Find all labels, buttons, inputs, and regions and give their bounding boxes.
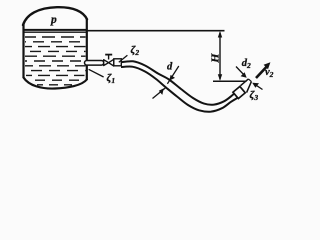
valve stem bbox=[108, 55, 110, 60]
svg-text:d: d bbox=[167, 61, 173, 72]
v2 arrow bbox=[256, 66, 267, 78]
nozzle collar bbox=[233, 86, 245, 98]
zeta1 leader bbox=[89, 69, 104, 77]
valve bowtie left bbox=[104, 60, 109, 66]
d2 lower-right arrow bbox=[254, 84, 263, 90]
water surface bbox=[25, 29, 87, 31]
nozzle converging tip bbox=[241, 79, 249, 86]
pipe entrance capsule bbox=[85, 61, 104, 66]
H top arrowhead bbox=[218, 31, 222, 38]
valve bowtie right bbox=[109, 59, 114, 66]
valve handle T-bar bbox=[105, 54, 112, 56]
water shading dashes bbox=[25, 37, 86, 85]
svg-text:H: H bbox=[211, 52, 222, 64]
datum line from surface bbox=[87, 30, 225, 32]
tank dome bbox=[23, 7, 87, 25]
d upper arrow bbox=[167, 66, 178, 84]
d2 upper-left arrow bbox=[236, 67, 245, 77]
zeta2 leader bbox=[119, 55, 128, 62]
d lower arrow bbox=[153, 87, 167, 98]
tank right wall bbox=[86, 19, 88, 80]
tank bottom bbox=[24, 78, 87, 89]
hose bottom edge bbox=[121, 66, 238, 111]
H dimension line bbox=[219, 33, 221, 80]
hose top edge bbox=[121, 61, 237, 105]
tank left wall bbox=[22, 24, 24, 78]
after-valve nipple bbox=[114, 59, 122, 66]
H bottom arrowhead bbox=[218, 74, 222, 81]
svg-text:p: p bbox=[50, 14, 57, 26]
exit level bar bbox=[213, 80, 247, 82]
